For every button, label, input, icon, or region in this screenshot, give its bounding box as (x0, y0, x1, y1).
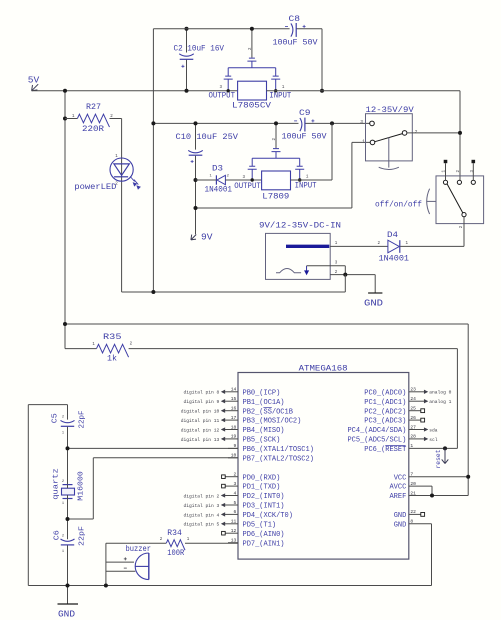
svg-text:analog 0: analog 0 (429, 390, 451, 396)
pin 4 PD2 (225, 495, 238, 497)
svg-text:PC2_(ADC2): PC2_(ADC2) (364, 408, 406, 416)
svg-text:9V/12-35V-DC-IN: 9V/12-35V-DC-IN (259, 222, 341, 231)
svg-text:2: 2 (460, 225, 464, 228)
capacitor C2 (186, 29, 188, 53)
pin 10 PB7 (228, 457, 238, 459)
svg-text:PD5_(T1): PD5_(T1) (243, 521, 277, 529)
svg-text:1: 1 (62, 431, 64, 435)
svg-text:2: 2 (160, 538, 163, 542)
svg-text:1N4001: 1N4001 (379, 255, 410, 264)
svg-text:PD6_(AIN0): PD6_(AIN0) (243, 531, 285, 539)
buzzer plus mark (124, 557, 127, 560)
diode D3 (215, 175, 217, 184)
pin PC6 RESET overline (385, 444, 405, 446)
pin 25 PC2 right (409, 410, 421, 412)
pin 19 PB5 (225, 438, 238, 440)
svg-text:D4: D4 (387, 231, 398, 240)
LED light arrows (130, 177, 134, 182)
reset arrow (442, 448, 449, 463)
svg-text:1: 1 (335, 242, 338, 246)
pin 27 PC4 right (409, 429, 424, 431)
svg-text:GND: GND (58, 609, 75, 619)
svg-text:digital pin 11: digital pin 11 (181, 418, 220, 424)
wire GND pin8 route (409, 523, 432, 525)
svg-text:PC0_(ADC0): PC0_(ADC0) (364, 389, 406, 397)
pin 23 PC0 right (409, 391, 424, 393)
resistor R35 (65, 348, 97, 350)
svg-text:PD7_(AIN1): PD7_(AIN1) (243, 540, 285, 548)
svg-text:1k: 1k (107, 355, 117, 364)
svg-text:digital pin 3: digital pin 3 (183, 503, 219, 509)
svg-text:INPUT: INPUT (269, 91, 291, 100)
svg-text:3: 3 (335, 261, 338, 265)
node 5V/R27 junction (63, 89, 67, 93)
svg-text:C2 10uF 16V: C2 10uF 16V (174, 45, 225, 54)
svg-text:analog 1: analog 1 (429, 399, 451, 405)
svg-text:9V: 9V (201, 233, 213, 243)
pin 16 PB2 (225, 410, 238, 412)
wire buzzer branch (105, 543, 107, 585)
node J1 pin2/pin3 junction (343, 273, 347, 277)
node U2 output-tab junction (251, 178, 254, 181)
svg-text:INPUT: INPUT (295, 182, 317, 191)
wire buzzer plus (106, 561, 134, 563)
pin 6 PD4 (225, 513, 238, 515)
pin 11 PD5 (225, 523, 238, 525)
svg-text:PB7_(XTAL2/TOSC2): PB7_(XTAL2/TOSC2) (243, 455, 314, 463)
svg-text:PB5_(SCK): PB5_(SCK) (243, 437, 281, 445)
supply arrow 5V (32, 84, 39, 91)
wire J1 pin3 (307, 265, 346, 267)
svg-text:1: 1 (406, 242, 409, 246)
svg-text:1: 1 (306, 176, 309, 180)
svg-text:C5: C5 (52, 413, 60, 424)
node C2 bottom junction (185, 89, 189, 93)
node U1 gnd-pin junction (250, 27, 254, 31)
wire C8 output drop (321, 29, 323, 91)
node C9 right junction (330, 121, 334, 125)
wire AVCC pin (409, 485, 432, 487)
node VCC-net tap junction (63, 322, 67, 326)
svg-text:digital pin 13: digital pin 13 (181, 437, 220, 443)
wire J1 pin2 (330, 274, 375, 276)
wire PC6 reset (409, 447, 458, 449)
svg-text:18: 18 (231, 424, 237, 430)
svg-text:PB4_(MISO): PB4_(MISO) (243, 427, 285, 435)
node mid-rail left junction (151, 121, 155, 125)
svg-text:26: 26 (410, 415, 416, 421)
svg-text:C9: C9 (299, 109, 311, 118)
node trunk/ground-rail junction (151, 290, 155, 294)
svg-text:GND: GND (364, 299, 383, 309)
svg-text:C10 10uF 25V: C10 10uF 25V (176, 133, 239, 142)
capacitor C5 (67, 405, 69, 420)
connector J1 center-pin arrow (305, 266, 309, 275)
wire S1 pin2 output (407, 132, 460, 134)
svg-text:1: 1 (187, 538, 190, 542)
resistor R27 (65, 118, 77, 120)
supply arrow 9V (191, 235, 196, 240)
switch S1 toggle lever (388, 138, 390, 168)
svg-text:1N4001: 1N4001 (205, 185, 233, 194)
svg-text:R34: R34 (167, 529, 182, 538)
svg-text:1: 1 (62, 502, 64, 506)
pin 18 PB4 (225, 429, 238, 431)
svg-text:3: 3 (234, 481, 237, 487)
wire J1 pin1 to D4 (330, 245, 388, 247)
connector J1 barrel pin bar (286, 245, 329, 248)
ground GND right (374, 275, 376, 293)
node VCC junction (466, 475, 470, 479)
svg-text:digital pin 10: digital pin 10 (181, 409, 220, 415)
node reset junction (443, 446, 447, 450)
svg-text:AREF: AREF (389, 493, 406, 501)
svg-text:PB6_(XTAL1/TOSC1): PB6_(XTAL1/TOSC1) (243, 446, 314, 454)
pin 15 PB1 (225, 400, 238, 402)
crystal Y1 quartz (63, 484, 73, 486)
svg-text:OUTPUT: OUTPUT (234, 182, 261, 191)
svg-text:100R: 100R (167, 549, 184, 558)
svg-text:1: 1 (210, 174, 213, 178)
wire 5V rail (32, 90, 238, 92)
svg-text:22: 22 (410, 509, 416, 515)
svg-text:PC4_(ADC4/SDA): PC4_(ADC4/SDA) (347, 427, 406, 435)
wire left trunk vertical (152, 29, 154, 292)
svg-text:100uF 50V: 100uF 50V (273, 39, 318, 48)
svg-text:VCC: VCC (394, 474, 407, 482)
svg-text:1: 1 (362, 138, 365, 144)
diode D4 (388, 240, 399, 253)
LED powerLED (121, 119, 123, 293)
svg-text:2: 2 (62, 534, 64, 538)
wire PB7 jog (68, 518, 94, 520)
svg-text:L7805CV: L7805CV (232, 102, 271, 111)
wire VCC pin (409, 476, 468, 478)
pin 3 PD1 (225, 485, 238, 487)
buzzer minus mark (124, 567, 127, 569)
wire AREF pin (409, 495, 468, 497)
node R27 tap junction (63, 117, 67, 121)
svg-text:PB1_(OC1A): PB1_(OC1A) (243, 399, 285, 407)
svg-text:5: 5 (234, 500, 237, 506)
svg-text:C8: C8 (289, 15, 301, 24)
svg-text:R27: R27 (86, 103, 101, 112)
svg-text:25: 25 (410, 406, 416, 412)
svg-text:PB3_(MOSI/OC2): PB3_(MOSI/OC2) (243, 418, 302, 426)
svg-text:M16000: M16000 (78, 471, 86, 501)
svg-text:15: 15 (231, 396, 237, 402)
svg-text:PB2_(SS/OC1B: PB2_(SS/OC1B (243, 408, 293, 416)
wire top rail (153, 28, 289, 30)
node 9V junction (194, 206, 198, 210)
svg-text:13: 13 (231, 538, 237, 544)
svg-text:digital pin 8: digital pin 8 (183, 390, 219, 396)
pin 14 PB0 (225, 391, 238, 393)
capacitor C10 (195, 123, 197, 149)
wire mid rail (153, 122, 298, 124)
wire U2 input drop (291, 179, 333, 181)
svg-text:AVCC: AVCC (389, 484, 406, 492)
svg-text:2: 2 (62, 480, 64, 484)
connector J1 sleeve hump (276, 269, 301, 273)
regulator U2 L7809 (262, 171, 291, 190)
svg-text:2: 2 (130, 343, 133, 347)
svg-text:OUTPUT: OUTPUT (209, 92, 236, 101)
svg-text:R35: R35 (103, 333, 122, 342)
svg-text:digital pin 9: digital pin 9 (183, 399, 219, 405)
svg-text:12: 12 (231, 528, 237, 534)
svg-text:C6: C6 (54, 530, 62, 541)
svg-text:22pF: 22pF (78, 526, 86, 546)
svg-text:digital pin 12: digital pin 12 (181, 427, 220, 433)
node S1/S2 junction (458, 131, 462, 135)
svg-text:5V: 5V (28, 76, 40, 86)
node C2 top junction (185, 27, 189, 31)
svg-text:2: 2 (115, 183, 118, 187)
pin 13 PD7 (228, 542, 238, 544)
node buzzer/bus junction (104, 584, 108, 588)
svg-text:off/on/off: off/on/off (375, 202, 422, 210)
svg-text:quartz: quartz (52, 468, 60, 500)
wire raw input rail (267, 90, 461, 92)
svg-text:digital pin 2: digital pin 2 (183, 493, 219, 499)
pin 2 PD0 (225, 476, 238, 478)
ground GND bottom (67, 586, 69, 605)
svg-text:6: 6 (234, 509, 237, 515)
capacitor C8 (291, 23, 293, 36)
svg-text:1: 1 (282, 86, 285, 90)
svg-text:24: 24 (410, 396, 416, 402)
svg-text:1: 1 (62, 550, 64, 554)
svg-text:GND: GND (394, 512, 407, 520)
svg-text:17: 17 (231, 415, 237, 421)
pin PB2 SS overline (263, 407, 271, 409)
pin 28 PC5 right (409, 438, 424, 440)
node D3 anode junction (194, 178, 198, 182)
svg-text:PD1_(TXD): PD1_(TXD) (243, 484, 281, 492)
node U2 input-tab junction (298, 178, 301, 181)
svg-text:3: 3 (360, 119, 363, 125)
svg-text:16: 16 (231, 406, 237, 412)
svg-text:sda: sda (429, 427, 438, 433)
pin 22 GND right (409, 513, 421, 515)
node PB6 junction (66, 446, 70, 450)
node U1 input-tab junction (274, 89, 277, 92)
capacitor C6 (61, 539, 75, 541)
switch S2 pin stubs (445, 163, 447, 180)
wire left bus (27, 405, 29, 586)
node C10 top junction (194, 121, 198, 125)
svg-text:220R: 220R (82, 125, 104, 134)
wire D4 to S2 (400, 245, 464, 247)
wire D3 output (196, 179, 217, 181)
svg-text:digital pin 4: digital pin 4 (183, 512, 219, 518)
svg-text:PB0_(ICP): PB0_(ICP) (243, 389, 281, 397)
wire VCC net top (65, 323, 468, 325)
wire ground return rail (344, 275, 346, 292)
svg-text:PC1_(ADC1): PC1_(ADC1) (364, 399, 406, 407)
pin 24 PC1 right (409, 400, 424, 402)
svg-text:L7809: L7809 (262, 193, 289, 202)
svg-text:PD0_(RXD): PD0_(RXD) (243, 474, 281, 482)
svg-text:3: 3 (220, 86, 223, 90)
svg-text:23: 23 (410, 387, 416, 393)
wire ground bus (28, 585, 431, 587)
node PB7 junction (66, 517, 70, 521)
svg-text:27: 27 (410, 424, 416, 430)
pin 26 PC3 right (409, 419, 421, 421)
svg-text:PC3_(ADC3): PC3_(ADC3) (364, 418, 406, 426)
node crystal/bus junction (66, 584, 70, 588)
wire 5V branch vertical (64, 91, 66, 349)
pin 12 PD6 (225, 532, 238, 534)
svg-text:D3: D3 (212, 165, 223, 174)
svg-text:11: 11 (231, 519, 237, 525)
svg-text:2: 2 (378, 242, 381, 246)
wire 9V node (196, 207, 352, 209)
svg-text:digital pin 5: digital pin 5 (183, 522, 219, 528)
svg-text:PC5_(ADC5/SCL): PC5_(ADC5/SCL) (347, 437, 406, 445)
svg-text:2: 2 (227, 174, 230, 178)
wire buzzer minus (106, 570, 135, 572)
capacitor C9 (300, 118, 302, 131)
svg-text:PD3_(INT1): PD3_(INT1) (243, 503, 285, 511)
svg-text:PC6_(RESET: PC6_(RESET (364, 446, 406, 454)
svg-text:PD2_(INT0): PD2_(INT0) (243, 493, 285, 501)
svg-text:14: 14 (231, 387, 237, 393)
node AVCC/AREF junction (430, 494, 434, 498)
pin 17 PB3 (225, 419, 238, 421)
pin 9 PB6 (228, 447, 238, 449)
wire S2 common down (463, 217, 465, 247)
resistor R34 (106, 542, 166, 544)
svg-text:22pF: 22pF (78, 411, 86, 429)
node raw/top-rail junction (320, 89, 324, 93)
svg-text:reset: reset (435, 449, 442, 468)
svg-text:GND: GND (394, 521, 407, 529)
svg-text:2: 2 (234, 472, 237, 478)
svg-text:100uF 50V: 100uF 50V (282, 133, 327, 142)
pin 5 PD3 (225, 504, 238, 506)
svg-text:1: 1 (92, 343, 95, 347)
svg-text:28: 28 (410, 434, 416, 440)
wire PB6 from crystal (68, 447, 239, 449)
svg-text:scl: scl (429, 437, 438, 443)
svg-text:2: 2 (62, 416, 64, 420)
svg-text:powerLED: powerLED (74, 182, 116, 192)
regulator U1 L7805CV (238, 81, 267, 100)
node U2 gnd-pin junction (274, 121, 278, 125)
svg-text:4: 4 (234, 490, 237, 496)
svg-text:PD4_(XCK/T0): PD4_(XCK/T0) (243, 512, 293, 520)
svg-text:2: 2 (415, 129, 418, 135)
svg-text:3: 3 (243, 176, 246, 180)
svg-text:19: 19 (231, 434, 237, 440)
node U1 output-tab junction (227, 89, 230, 92)
